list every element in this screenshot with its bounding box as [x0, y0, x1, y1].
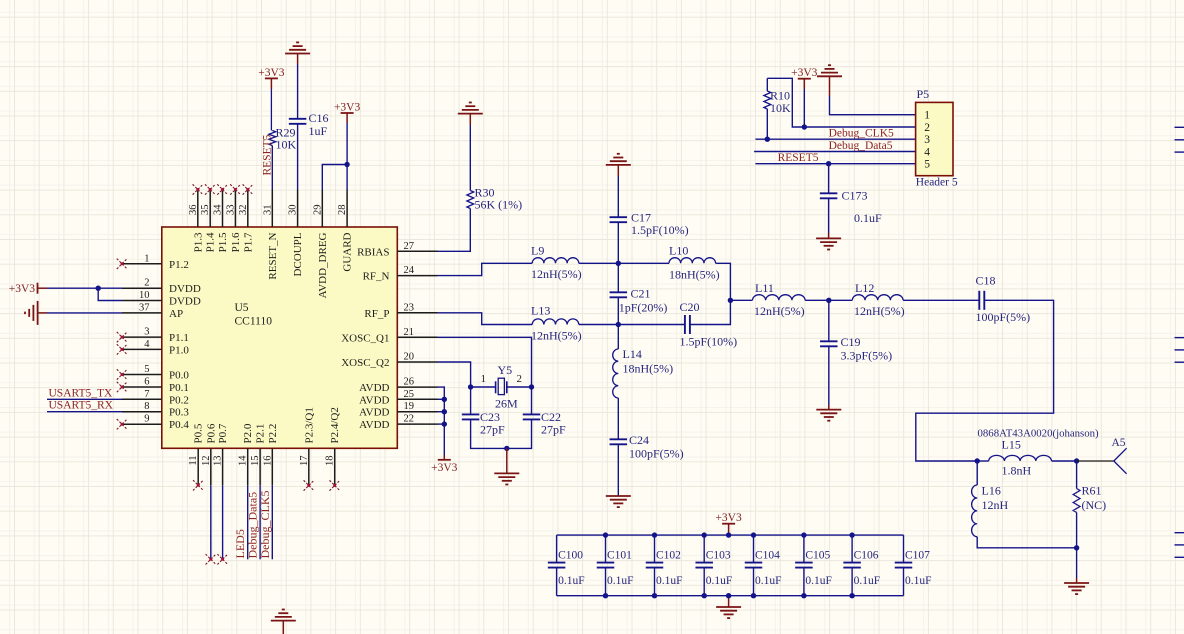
wire C24 to ground	[617, 445, 619, 496]
svg-text:15: 15	[250, 456, 261, 467]
svg-text:32: 32	[238, 205, 249, 216]
svg-text:P1.2: P1.2	[169, 259, 189, 271]
junction C103 top	[702, 532, 707, 537]
svg-text:C24: C24	[629, 433, 649, 447]
pin 9 P0.4 (left)	[122, 423, 162, 425]
svg-text:Debug_CLK5: Debug_CLK5	[829, 128, 894, 140]
svg-text:+3V3: +3V3	[431, 462, 458, 474]
wire L13 to node RF_P	[579, 324, 619, 326]
svg-text:5: 5	[924, 159, 930, 171]
capacitor C104 0.1uF	[753, 535, 755, 563]
junction Debug_CLK5	[765, 137, 770, 142]
svg-text:9: 9	[144, 414, 149, 425]
svg-text:AVDD: AVDD	[359, 407, 389, 419]
pin 32 P1.7 (top)	[247, 190, 249, 228]
power +3V3 (GUARD)	[341, 112, 354, 114]
junction C102 bottom	[652, 593, 657, 598]
inductor L14	[617, 325, 619, 350]
wire bank ground stem	[728, 596, 730, 607]
pin 18 P2.4/Q2 (bottom)	[334, 448, 336, 485]
pin 17 P2.3/Q1 (bottom)	[308, 448, 310, 485]
svg-text:L9: L9	[531, 244, 544, 258]
svg-text:6: 6	[144, 377, 149, 388]
IC U5 CC1110 body	[162, 227, 397, 448]
junction C105 bottom	[801, 593, 806, 598]
svg-text:Debug_Data5: Debug_Data5	[829, 140, 893, 152]
junction match node	[728, 298, 733, 303]
no-connect X pin3	[117, 332, 127, 342]
wire pin24 RF_N	[438, 263, 533, 275]
power +3V3 (header)	[798, 78, 811, 80]
wire R30 to pin27 RBIAS	[438, 209, 471, 252]
svg-text:P1.4: P1.4	[205, 232, 217, 252]
wire C21 to RF_P node	[617, 298, 619, 325]
pin 6 P0.1 (left)	[122, 386, 162, 388]
svg-text:4: 4	[924, 147, 930, 159]
pin 1 P1.2 (left)	[122, 263, 162, 265]
wire USART5_RX	[47, 411, 122, 413]
svg-text:25: 25	[404, 389, 415, 400]
svg-text:1: 1	[144, 253, 149, 264]
wire R10 top to +3V3 net	[767, 78, 804, 127]
pin 25 AVDD (right)	[397, 398, 437, 400]
svg-text:C106: C106	[854, 550, 879, 562]
svg-text:30: 30	[288, 205, 299, 216]
wire stub right edge 8	[1175, 544, 1184, 546]
svg-text:Y5: Y5	[498, 363, 513, 377]
svg-text:C100: C100	[558, 550, 583, 562]
pin 27 RBIAS (right)	[397, 250, 437, 252]
capacitor C106 0.1uF	[851, 535, 853, 563]
pin 15 P2.1 (bottom)	[259, 448, 261, 485]
svg-text:29: 29	[312, 205, 323, 216]
wire C16 to pin30	[297, 124, 299, 189]
svg-text:21: 21	[404, 327, 415, 338]
junction C104 bottom	[751, 593, 756, 598]
pin 10 DVDD (left)	[122, 300, 162, 302]
svg-text:P1.5: P1.5	[217, 232, 229, 252]
wire to ground	[1076, 548, 1078, 578]
svg-text:C21: C21	[631, 287, 651, 301]
svg-text:+3V3: +3V3	[9, 283, 36, 295]
svg-text:10K: 10K	[276, 138, 297, 152]
inductor L9	[532, 258, 579, 264]
svg-text:P1.3: P1.3	[192, 232, 204, 252]
junction ground node	[1074, 545, 1079, 550]
svg-text:R61: R61	[1082, 484, 1102, 498]
svg-text:1.8nH: 1.8nH	[1002, 464, 1032, 478]
wire stub right edge 2	[1175, 139, 1184, 141]
ground (above R30)	[458, 103, 483, 114]
no-connect X pin5	[117, 369, 127, 379]
svg-text:0.1uF: 0.1uF	[607, 575, 634, 587]
power +3V3 (above R29)	[265, 77, 278, 79]
svg-text:RESET5: RESET5	[778, 152, 819, 164]
pin 37 AP (left)	[122, 312, 162, 314]
pin 22 AVDD (right)	[397, 423, 437, 425]
wire L10 down to match node	[716, 263, 731, 300]
svg-text:+3V3: +3V3	[334, 102, 361, 114]
svg-text:18: 18	[325, 456, 336, 467]
svg-text:12: 12	[201, 456, 212, 467]
ground (below R61)	[1064, 583, 1089, 594]
svg-text:C105: C105	[805, 550, 830, 562]
wire pin23 RF_P	[438, 313, 533, 325]
pin 3 P1.1 (left)	[122, 336, 162, 338]
svg-text:L14: L14	[623, 347, 642, 361]
svg-text:0.1uF: 0.1uF	[854, 211, 882, 225]
pin 11 P0.5 (bottom)	[197, 448, 199, 485]
svg-text:USART5_RX: USART5_RX	[49, 400, 114, 412]
capacitor C24	[610, 438, 628, 440]
junction AVDD 22	[442, 421, 447, 426]
pin 33 P1.6 (top)	[234, 190, 236, 228]
inductor L10	[669, 258, 716, 264]
wire ground to pin37	[38, 312, 47, 314]
no-connect X pin6	[117, 382, 127, 392]
wire L14 to C24	[617, 398, 619, 439]
no-connect X pin1	[117, 259, 127, 269]
svg-text:L16: L16	[982, 484, 1001, 498]
inductor L11	[753, 295, 806, 301]
junction GUARD node	[344, 162, 349, 167]
ground (below crystal)	[494, 473, 519, 484]
capacitor C21	[617, 263, 619, 292]
svg-text:24: 24	[404, 265, 415, 276]
wire stub right edge 6	[1175, 361, 1184, 363]
capacitor C22	[531, 387, 533, 414]
svg-text:35: 35	[200, 205, 211, 216]
svg-text:XOSC_Q2: XOSC_Q2	[341, 357, 389, 369]
junction C106 bottom	[849, 593, 854, 598]
svg-text:36: 36	[188, 205, 199, 216]
svg-text:P2.0: P2.0	[242, 423, 254, 443]
svg-text:12nH: 12nH	[982, 498, 1009, 512]
svg-text:100pF(5%): 100pF(5%)	[976, 310, 1031, 324]
junction C101 bottom	[603, 593, 608, 598]
ground (bottom centre)	[271, 610, 296, 621]
svg-text:AVDD: AVDD	[359, 382, 389, 394]
no-connect X pin11	[193, 480, 203, 490]
pin 13 P0.7 (bottom)	[222, 448, 224, 485]
wire pin15 Debug_Data5	[259, 485, 261, 559]
svg-text:C102: C102	[656, 550, 681, 562]
svg-text:18nH(5%): 18nH(5%)	[623, 362, 674, 376]
wire +3V3 stem	[803, 79, 805, 89]
junction C104 top	[751, 532, 756, 537]
wire pin19 to bus	[438, 411, 445, 413]
junction crystal right	[529, 384, 534, 389]
svg-text:22: 22	[404, 414, 415, 425]
wire ground to C16	[297, 54, 299, 65]
capacitor C107 0.1uF	[903, 535, 905, 563]
wire C19 to ground	[828, 347, 830, 405]
no-connect X pin18	[330, 480, 340, 490]
wire pin25 to bus	[438, 398, 445, 400]
pin 12 P0.6 (bottom)	[210, 448, 212, 485]
svg-text:12nH(5%): 12nH(5%)	[531, 329, 582, 343]
junction AVDD 19	[442, 409, 447, 414]
capacitor C18	[978, 291, 980, 310]
junction C106 top	[849, 532, 854, 537]
ground (above C16)	[285, 42, 310, 53]
svg-text:7: 7	[144, 389, 149, 400]
svg-text:L15: L15	[1002, 438, 1021, 452]
wire L9 to node RF_N	[579, 262, 619, 264]
pin 2 DVDD (left)	[122, 287, 162, 289]
wire ground to header pin1	[829, 76, 831, 96]
svg-text:P1.7: P1.7	[242, 232, 254, 252]
wire Debug_Data5 header pin4	[754, 151, 916, 153]
wire to pin29	[322, 165, 347, 190]
pin 28 GUARD (top)	[346, 190, 348, 228]
junction C103 bottom	[702, 593, 707, 598]
wire ground to R30	[469, 114, 471, 125]
wire L16 to ground node	[977, 537, 1076, 548]
junction C105 top	[801, 532, 806, 537]
wire USART5_TX	[47, 398, 122, 400]
svg-text:P1.6: P1.6	[230, 232, 242, 252]
svg-text:+3V3: +3V3	[715, 512, 742, 524]
ground (below C19)	[816, 410, 841, 421]
wire pin16 Debug_CLK5	[271, 485, 273, 559]
pin 29 AVDD_DREG (top)	[321, 190, 323, 228]
svg-text:1uF: 1uF	[309, 124, 328, 138]
wire C17 to RF_N node	[617, 223, 619, 264]
svg-text:37: 37	[139, 302, 150, 313]
svg-text:100pF(5%): 100pF(5%)	[629, 447, 684, 461]
svg-text:5: 5	[144, 364, 149, 375]
wire stub right edge 1	[1175, 126, 1184, 128]
wire +3V3 to pin2	[38, 287, 48, 289]
capacitor C17	[610, 216, 628, 218]
svg-text:27pF: 27pF	[541, 423, 566, 437]
wire stub right edge 9	[1175, 556, 1184, 558]
svg-text:3: 3	[144, 327, 149, 338]
svg-text:27pF: 27pF	[480, 423, 505, 437]
no-connect X pin33	[230, 184, 240, 194]
svg-text:10: 10	[139, 290, 150, 301]
wire C18 to antenna node	[916, 300, 1054, 461]
svg-text:P0.4: P0.4	[169, 419, 189, 431]
node RF_P junction	[616, 322, 621, 327]
junction crystal left	[468, 384, 473, 389]
crystal Y5	[471, 386, 496, 388]
svg-text:12nH(5%): 12nH(5%)	[754, 304, 805, 318]
junction bank ground	[726, 593, 731, 598]
no-connect X pin34	[217, 184, 227, 194]
svg-text:16: 16	[262, 456, 273, 467]
wire pin14 LED5	[247, 485, 249, 559]
pin 20 XOSC_Q2 (right)	[397, 361, 437, 363]
svg-text:27: 27	[404, 241, 415, 252]
wire L11 to C19 node	[805, 299, 829, 301]
wire +3V3 rail top	[557, 534, 904, 536]
svg-text:RESET5: RESET5	[261, 134, 273, 175]
wire header pin2	[804, 126, 915, 128]
inductor L15	[977, 460, 989, 462]
power +3V3 (left, to DVDD)	[37, 283, 39, 294]
inductor L16	[976, 461, 978, 485]
svg-text:11: 11	[188, 456, 199, 466]
wire L12 to C18	[903, 299, 979, 301]
capacitor C102 0.1uF	[654, 535, 656, 563]
no-connect X pin4	[117, 344, 127, 354]
svg-text:P2.4/Q2: P2.4/Q2	[329, 407, 341, 443]
svg-text:P5: P5	[917, 87, 930, 101]
svg-text:4: 4	[144, 339, 150, 350]
wire stub right edge 5	[1175, 349, 1184, 351]
svg-text:28: 28	[337, 205, 348, 216]
svg-text:RBIAS: RBIAS	[357, 246, 389, 258]
pin 5 P0.0 (left)	[122, 374, 162, 376]
svg-text:0.1uF: 0.1uF	[905, 575, 932, 587]
svg-text:RF_N: RF_N	[363, 271, 390, 283]
svg-text:U5: U5	[235, 302, 249, 314]
svg-text:0.1uF: 0.1uF	[706, 575, 733, 587]
svg-text:P2.2: P2.2	[267, 424, 279, 444]
wire to ground	[506, 448, 508, 473]
svg-text:CC1110: CC1110	[235, 316, 273, 328]
wire L15 to antenna	[1052, 460, 1077, 462]
svg-text:1: 1	[481, 373, 487, 385]
svg-text:+3V3: +3V3	[791, 67, 818, 79]
pin 4 P1.0 (left)	[122, 348, 162, 350]
svg-text:0.1uF: 0.1uF	[805, 575, 832, 587]
svg-text:8: 8	[144, 401, 149, 412]
svg-text:A5: A5	[1112, 437, 1126, 449]
junction crystal ground	[504, 446, 509, 451]
svg-text:0.1uF: 0.1uF	[755, 575, 782, 587]
junction header pin2	[802, 124, 807, 129]
ground (below C24)	[606, 496, 631, 507]
svg-text:34: 34	[213, 204, 224, 215]
capacitor C101 0.1uF	[605, 535, 607, 563]
svg-text:P2.3/Q1: P2.3/Q1	[303, 407, 315, 443]
svg-text:10K: 10K	[770, 101, 791, 115]
pin 7 P0.2 (left)	[122, 398, 162, 400]
connector P5 body	[916, 102, 953, 175]
pin 36 P1.3 (top)	[197, 190, 199, 228]
junction RESET5 / C173	[826, 161, 831, 166]
wire C20 up to match node	[690, 300, 730, 324]
svg-text:AP: AP	[169, 308, 183, 320]
wire stub right edge 7	[1175, 532, 1184, 534]
pin 26 AVDD (right)	[397, 386, 437, 388]
junction C19 node	[826, 298, 831, 303]
pin 19 AVDD (right)	[397, 411, 437, 413]
svg-text:DCOUPL: DCOUPL	[292, 232, 304, 276]
pin 31 RESET_N (top)	[271, 190, 273, 228]
svg-text:P0.5: P0.5	[193, 423, 205, 443]
svg-text:L13: L13	[531, 304, 550, 318]
svg-text:C104: C104	[755, 550, 780, 562]
svg-text:20: 20	[404, 352, 415, 363]
svg-text:3: 3	[924, 134, 930, 146]
ground (above C17)	[606, 154, 631, 165]
svg-text:RF_P: RF_P	[364, 308, 389, 320]
wire Debug_CLK5 header pin3	[755, 138, 915, 140]
svg-text:33: 33	[225, 205, 236, 216]
svg-text:26M: 26M	[495, 397, 518, 411]
junction antenna right	[1074, 458, 1079, 463]
pin 16 P2.2 (bottom)	[271, 448, 273, 485]
wire pin20 XOSC_Q2	[438, 362, 471, 387]
junction C101 top	[603, 532, 608, 537]
svg-text:C101: C101	[607, 550, 632, 562]
power +3V3 (below AVDD)	[438, 459, 451, 461]
svg-text:P0.7: P0.7	[217, 423, 229, 443]
wire node to L10	[618, 262, 669, 264]
svg-text:RESET_N: RESET_N	[267, 232, 279, 279]
wire pin21 XOSC_Q1	[438, 337, 532, 387]
junction bank +3V3	[726, 532, 731, 537]
svg-text:P0.0: P0.0	[169, 370, 189, 382]
no-connect X pin13 end	[217, 554, 227, 564]
svg-text:P2.1: P2.1	[255, 424, 267, 444]
pin 21 XOSC_Q1 (right)	[397, 336, 437, 338]
wire RESET5 header pin5	[755, 163, 915, 165]
svg-text:C107: C107	[905, 550, 930, 562]
capacitor C19	[828, 300, 830, 341]
svg-text:1.5pF(10%): 1.5pF(10%)	[631, 223, 689, 237]
svg-text:C16: C16	[309, 111, 329, 125]
svg-text:L11: L11	[755, 281, 774, 295]
wire pin12 stub	[210, 485, 212, 559]
wire AVDD bus	[438, 387, 445, 455]
svg-text:DVDD: DVDD	[169, 283, 201, 295]
svg-text:C18: C18	[976, 274, 996, 288]
svg-text:P0.1: P0.1	[169, 382, 189, 394]
svg-text:C103: C103	[706, 550, 731, 562]
svg-text:0.1uF: 0.1uF	[656, 575, 683, 587]
wire R10 bottom to Debug_CLK5	[766, 109, 768, 139]
resistor R29	[270, 78, 272, 89]
no-connect X pin32	[243, 184, 253, 194]
inductor L12	[852, 295, 903, 301]
junction at DVDD	[96, 286, 101, 291]
junction AVDD 25	[442, 397, 447, 402]
power +3V3 (bank)	[722, 523, 735, 525]
node RF_N junction	[616, 261, 621, 266]
svg-text:P0.3: P0.3	[169, 407, 189, 419]
svg-text:P1.1: P1.1	[169, 332, 189, 344]
svg-text:13: 13	[213, 456, 224, 467]
svg-text:C173: C173	[842, 189, 868, 203]
resistor R61	[1076, 461, 1078, 489]
svg-text:56K (1%): 56K (1%)	[475, 198, 523, 212]
svg-text:XOSC_Q1: XOSC_Q1	[341, 332, 389, 344]
svg-text:1.5pF(10%): 1.5pF(10%)	[680, 335, 738, 349]
no-connect X pin12 end	[206, 554, 216, 564]
svg-text:AVDD: AVDD	[359, 394, 389, 406]
wire stub right edge 3	[1175, 151, 1184, 153]
capacitor C16	[289, 118, 307, 120]
wire node to L12	[829, 299, 853, 301]
ground (left, to AP)	[25, 301, 38, 325]
capacitor C100 0.1uF	[556, 535, 558, 563]
svg-text:12nH(5%): 12nH(5%)	[531, 267, 582, 281]
svg-text:C20: C20	[680, 300, 700, 314]
ground (below bank)	[716, 607, 741, 618]
wire node to C20	[618, 324, 685, 326]
no-connect X pin36	[193, 184, 203, 194]
no-connect X pin9	[117, 419, 127, 429]
junction C102 top	[652, 532, 657, 537]
svg-text:GUARD: GUARD	[342, 232, 354, 271]
ground (above header)	[817, 65, 842, 76]
svg-text:18nH(5%): 18nH(5%)	[669, 268, 720, 282]
